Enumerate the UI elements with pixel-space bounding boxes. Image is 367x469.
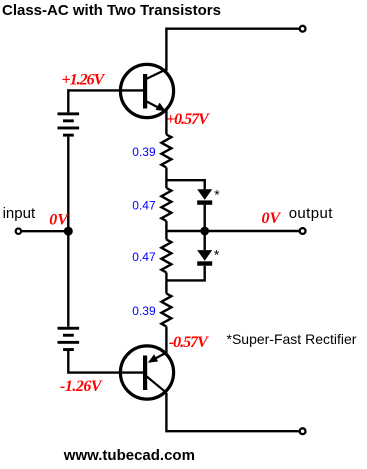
Q2 emitter line	[150, 353, 167, 362]
resistor R1 0.39	[161, 135, 171, 168]
svg-text:input: input	[3, 205, 36, 222]
svg-text:-0.57V: -0.57V	[169, 334, 209, 351]
wire: Q2 collector to bottom rail	[166, 393, 301, 432]
resistor R4 0.39	[161, 294, 171, 327]
wire: junction to D2	[203, 231, 205, 250]
svg-text:*: *	[214, 186, 220, 202]
svg-text:-1.26V: -1.26V	[60, 378, 103, 395]
svg-text:0.39: 0.39	[132, 145, 156, 159]
wire: diode branch top connect	[166, 180, 204, 189]
wire: output	[166, 230, 301, 232]
node: output junction	[200, 227, 209, 236]
svg-text:0.39: 0.39	[132, 304, 156, 318]
Q2 base bar	[143, 356, 147, 391]
terminal: output	[300, 228, 306, 234]
svg-text:0V: 0V	[262, 210, 282, 227]
svg-text:*Super-Fast Rectifier: *Super-Fast Rectifier	[227, 331, 357, 347]
wire: D1 to junction	[203, 205, 205, 231]
Q1 base bar	[143, 74, 147, 109]
Q1 emitter arrow	[156, 103, 166, 112]
Q1 emitter line	[147, 102, 164, 111]
battery B2 (bottom)	[58, 327, 80, 351]
resistor R3 0.47	[161, 240, 171, 273]
Q1 body circle	[120, 64, 173, 117]
Q2 emitter arrow	[148, 354, 158, 363]
node: input junction	[64, 227, 73, 236]
wire: R3 to R4	[165, 273, 167, 294]
diode D2	[197, 250, 212, 266]
wire: R4 to Q2 emitter	[165, 327, 167, 354]
Q2 collector line	[147, 376, 167, 392]
wire: top rail horizontal to output terminal	[166, 29, 301, 71]
resistor R2 0.47	[161, 188, 171, 221]
svg-text:Class-AC with Two Transistors: Class-AC with Two Transistors	[2, 2, 221, 19]
wire: R1 to R2	[165, 168, 167, 189]
terminal: top right	[300, 26, 306, 32]
svg-text:+1.26V: +1.26V	[62, 71, 106, 88]
svg-text:www.tubecad.com: www.tubecad.com	[63, 447, 195, 464]
wire: left rail between B1 and B2	[67, 137, 69, 327]
wire: R2 to R3	[165, 221, 167, 240]
Q2 body circle	[120, 346, 173, 399]
svg-text:0.47: 0.47	[132, 198, 156, 212]
svg-text:+0.57V: +0.57V	[166, 111, 210, 128]
wire: diode branch bottom connect	[166, 266, 204, 281]
svg-text:0V: 0V	[49, 212, 69, 229]
wire: input to junction	[21, 230, 69, 232]
wire: Q1 emitter to R1	[165, 111, 167, 135]
wire: left rail below B2 to Q2 base	[68, 351, 144, 373]
Q1 collector line	[147, 69, 167, 79]
svg-text:*: *	[214, 246, 220, 262]
wire: Q1 base to left rail	[68, 89, 144, 91]
terminal: bottom right	[300, 428, 306, 434]
transistor Q2 (bottom, PNP)	[120, 346, 173, 399]
svg-text:output: output	[289, 205, 334, 222]
svg-text:0.47: 0.47	[132, 250, 156, 264]
battery B1 (top)	[58, 112, 80, 136]
wire: left rail above battery B1	[67, 89, 69, 112]
diode D1	[197, 189, 212, 205]
transistor Q1 (top, NPN)	[120, 64, 173, 117]
input terminal	[16, 229, 21, 234]
